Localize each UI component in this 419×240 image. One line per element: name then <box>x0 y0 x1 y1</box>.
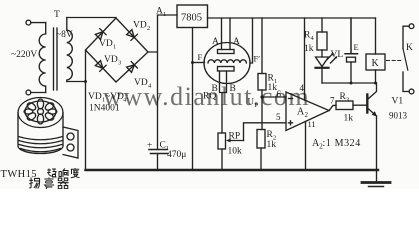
relay K coil box <box>366 54 385 70</box>
wire relay bottom to node <box>375 70 377 83</box>
transformer T primary winding <box>39 23 45 93</box>
svg-text:2: 2 <box>305 111 309 119</box>
svg-text:6: 6 <box>277 89 282 99</box>
wire R3 to V1 base <box>353 104 367 106</box>
svg-text:RP: RP <box>229 132 241 142</box>
speaker caption CJK chao-xiang-du (drawn strokes) <box>47 168 79 178</box>
svg-text:470μ: 470μ <box>167 150 186 160</box>
op-amp A2 triangle <box>286 92 329 131</box>
svg-text:11: 11 <box>308 119 316 129</box>
switch K top terminal <box>409 24 414 29</box>
switch K blade <box>403 49 408 71</box>
svg-text:VD: VD <box>133 21 147 31</box>
svg-text:VD: VD <box>104 55 118 65</box>
speaker pictorial: center hub <box>38 109 44 115</box>
speaker pictorial: body <box>18 113 63 154</box>
svg-text:5: 5 <box>276 112 281 122</box>
svg-text:~220V: ~220V <box>11 50 37 60</box>
wire R4 to LED <box>321 50 323 57</box>
svg-text:1: 1 <box>163 11 166 18</box>
wire op-amp output pin 7 <box>329 105 336 110</box>
transistor V1 base bar <box>366 95 368 113</box>
capacitor C1 plates <box>149 149 167 151</box>
svg-text:10k: 10k <box>228 147 243 157</box>
svg-text:1k: 1k <box>344 114 354 124</box>
wire sensor heater F to 7805 gnd line <box>193 62 205 64</box>
diode VD2 <box>126 29 137 40</box>
svg-text:1: 1 <box>113 44 116 51</box>
wire sensor A pins to +5V rail <box>222 18 231 50</box>
wire op-amp pin 11 to ground rail <box>305 122 307 171</box>
svg-text:P: P <box>255 102 259 109</box>
transformer T primary terminal (top) <box>26 20 31 25</box>
speaker pictorial: bracket holes <box>67 133 74 140</box>
gas sensor RQ top electrode plate A <box>218 50 235 54</box>
diode VD1 <box>95 29 106 40</box>
resistor R2 <box>257 130 265 149</box>
capacitor E top plate <box>345 18 358 54</box>
transistor V1 collector <box>368 83 377 99</box>
capacitor E bottom plate box <box>347 57 356 62</box>
wire R4 top to rail <box>321 18 323 32</box>
ground symbol <box>362 181 390 184</box>
svg-text:K: K <box>372 58 380 69</box>
svg-text:3: 3 <box>346 97 349 104</box>
diode VD4 <box>126 62 137 73</box>
svg-text:1k: 1k <box>267 140 277 150</box>
wire sensor B pins join <box>220 71 227 133</box>
transformer T core <box>54 28 58 90</box>
LED VL emission arrows <box>327 54 337 64</box>
svg-text:B: B <box>230 84 236 94</box>
speaker pictorial: face <box>18 98 63 128</box>
wire <box>31 92 46 94</box>
svg-text:A: A <box>212 37 219 47</box>
wire bridge right corner (DC+) to 7805 input and C1 <box>148 15 177 150</box>
svg-text:C: C <box>160 141 166 151</box>
wire RP wiper to op-amp pin 5 <box>244 123 287 141</box>
svg-text:E: E <box>354 42 359 52</box>
svg-text:A: A <box>156 7 163 17</box>
svg-text:4: 4 <box>311 35 315 42</box>
switch K bottom lead <box>403 72 409 92</box>
transistor V1 emitter arrowhead <box>372 111 377 116</box>
svg-text:U: U <box>248 97 255 107</box>
wire relay top to rail <box>375 18 377 54</box>
svg-text:7805: 7805 <box>181 13 202 24</box>
wire secondary top to bridge <box>67 17 116 19</box>
wire node under LED/E/relay <box>322 82 376 84</box>
wire R1 top to rail <box>261 18 263 74</box>
svg-text:F′: F′ <box>254 54 261 64</box>
svg-text:VD: VD <box>134 78 148 88</box>
wire LED bottom to node <box>321 69 323 83</box>
svg-text:VL: VL <box>331 50 344 60</box>
wire RP bottom to ground rail <box>221 149 223 170</box>
transistor V1 emitter <box>368 109 377 117</box>
speaker pictorial: grille ring <box>25 101 56 122</box>
wire C1 to ground rail <box>157 154 159 171</box>
svg-text::: : <box>126 92 129 102</box>
wire node Up down to R2 <box>261 97 263 130</box>
junction dots <box>84 61 377 99</box>
regulator U A1 7805 box <box>177 5 208 28</box>
speaker caption CJK yang-sheng-qi (drawn strokes) <box>29 178 68 190</box>
svg-text:3: 3 <box>118 60 121 67</box>
wire R2 bottom to ground rail <box>260 148 262 170</box>
svg-text:V1: V1 <box>392 97 404 107</box>
resistor R1 <box>258 74 266 91</box>
svg-text:1N4001: 1N4001 <box>89 104 120 114</box>
gas sensor RQ heater coil <box>208 60 246 63</box>
wire V1 emitter to ground <box>376 116 378 182</box>
ground rail <box>86 169 379 171</box>
wire E bottom to node <box>350 62 352 83</box>
switch K bottom terminal <box>409 89 414 94</box>
svg-text:+: + <box>147 141 152 151</box>
resistor R3 <box>336 101 353 110</box>
svg-text:A: A <box>233 37 240 47</box>
speaker pictorial: grille petals <box>24 99 57 124</box>
resistor R4 <box>317 32 327 50</box>
wire sensor heater F' to +5V rail <box>250 18 253 63</box>
wire op-amp pin 4 to +5V rail <box>304 18 306 100</box>
wire <box>31 22 46 24</box>
gas sensor RQ bottom electrode plate B <box>218 67 235 72</box>
svg-text:7: 7 <box>330 96 335 106</box>
wire bridge left corner (DC-) down to ground rail <box>85 50 87 170</box>
LED VL triangle <box>316 57 329 67</box>
speaker pictorial: mounting bracket <box>63 127 78 158</box>
svg-text:F: F <box>198 52 203 62</box>
diode VD3 <box>95 60 106 71</box>
svg-text:K: K <box>406 43 413 53</box>
svg-text:2: 2 <box>147 25 150 32</box>
switch K top lead <box>403 26 409 48</box>
transformer T secondary winding <box>67 18 73 82</box>
potentiometer RP body <box>218 133 226 149</box>
svg-text:RQ: RQ <box>203 92 216 102</box>
wire R1 bottom to node Up <box>261 90 263 97</box>
relay-switch mechanical link (dashed) <box>387 60 402 62</box>
svg-text:VD: VD <box>88 92 102 102</box>
op-amp A2 plus input mark <box>289 121 293 125</box>
svg-text:9013: 9013 <box>389 111 408 121</box>
bridge rectifier diamond edges <box>86 18 149 82</box>
wire node Up to op-amp pin 6 <box>262 96 286 98</box>
potentiometer RP wiper arrow <box>229 140 244 142</box>
op-amp A2 minus input mark <box>289 98 293 100</box>
gas sensor RQ envelope <box>204 43 250 84</box>
wire 7805 ground pin down <box>192 28 194 171</box>
wire secondary bottom <box>67 81 86 83</box>
transformer T primary terminal (bottom) <box>26 90 31 95</box>
svg-text:1k: 1k <box>304 44 314 54</box>
wire +5V rail <box>208 17 376 19</box>
speaker pictorial: body bands <box>18 137 62 152</box>
svg-text::1 M324: :1 M324 <box>323 138 361 149</box>
svg-text:~VD: ~VD <box>105 92 124 102</box>
LED VL cathode bar <box>316 67 329 69</box>
svg-text:~8V: ~8V <box>56 30 73 40</box>
svg-text:T: T <box>54 10 60 20</box>
svg-text:4: 4 <box>300 83 305 93</box>
svg-text:VD: VD <box>99 39 113 49</box>
